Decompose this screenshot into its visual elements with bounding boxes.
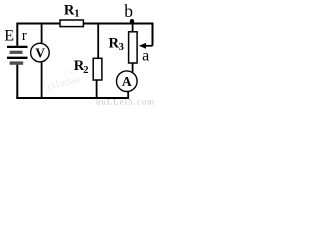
wire bottom bbox=[16, 97, 129, 99]
wire left lower bbox=[16, 65, 18, 99]
svg-text:A: A bbox=[122, 74, 132, 89]
svg-text:a: a bbox=[142, 47, 149, 64]
resistor R2 bbox=[74, 24, 102, 99]
svg-text:b: b bbox=[124, 1, 133, 21]
resistor R1 bbox=[60, 2, 83, 26]
svg-text:r: r bbox=[22, 28, 27, 44]
svg-text:1: 1 bbox=[74, 9, 79, 20]
svg-text:R: R bbox=[64, 2, 75, 18]
svg-text:3: 3 bbox=[119, 42, 124, 53]
ammeter A bbox=[117, 71, 138, 99]
wire right bbox=[152, 23, 154, 46]
wire top bbox=[17, 23, 152, 25]
wiper arrow of R3 bbox=[139, 43, 153, 49]
svg-text:2: 2 bbox=[83, 65, 88, 76]
node b bbox=[130, 19, 134, 23]
svg-text:V: V bbox=[35, 46, 45, 61]
wire left upper bbox=[16, 23, 18, 46]
battery E r bbox=[7, 47, 28, 63]
voltmeter V bbox=[31, 23, 50, 100]
rheostat R3 bbox=[109, 24, 138, 74]
svg-text:E: E bbox=[4, 27, 14, 44]
